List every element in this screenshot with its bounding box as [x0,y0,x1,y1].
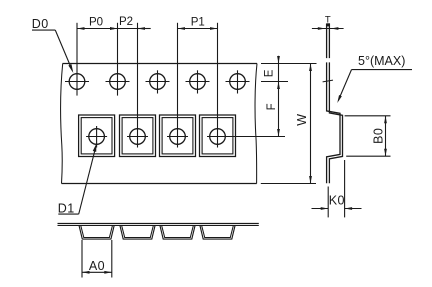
arrow T right [331,27,339,30]
sprocket hole 5 [226,70,250,93]
section tape wall outer line [327,24,340,184]
tape bottom edge [62,183,257,185]
arrow F bottom [277,129,280,137]
tape right torn edge [255,64,257,184]
svg-text:W: W [295,114,309,126]
dimension P2 line [118,28,138,30]
arrow P1 right [210,27,218,30]
tape top edge [63,63,258,65]
arrow P2 right [138,27,146,30]
extension of tape bottom edge [261,183,316,185]
extension of tape top edge [261,63,317,65]
arrow P2 left [110,27,118,30]
arrow P0 left [77,27,85,30]
svg-text:E: E [263,69,275,77]
dimension P1 line [178,28,218,30]
arrowheads [68,23,387,273]
svg-text:D0: D0 [32,17,49,31]
svg-text:5°(MAX): 5°(MAX) [358,54,405,68]
pocket 2 [120,23,156,157]
side view pocket 2 [120,226,155,239]
tape left torn edge [61,64,63,184]
leader D0 [32,30,72,70]
section break tick [323,80,333,82]
dimension W line [310,64,312,184]
arrow 5deg [337,95,342,103]
svg-text:B0: B0 [372,128,386,144]
svg-text:P1: P1 [191,17,205,29]
P2 arrow tail [138,28,151,30]
pocket 1 [79,115,115,157]
arrow K0 right [345,207,353,210]
arrow B0 top [384,116,387,124]
svg-text:F: F [266,103,278,110]
side view pocket 1 [79,226,114,239]
sprocket hole 3 [146,70,170,93]
arrow A0 left [82,271,90,274]
arrow P0 right [110,27,118,30]
sprocket hole 1 [65,23,89,96]
arrow K0 left [321,207,329,210]
svg-text:D1: D1 [58,201,75,215]
side view pocket 3 [160,226,195,239]
dimension K0 [312,160,362,217]
dimension A0 [82,240,112,278]
svg-text:A0: A0 [89,259,105,273]
sprocket hole 4 [186,70,210,93]
svg-text:P0: P0 [89,17,103,29]
arrow B0 bottom [384,149,387,157]
svg-text:T: T [325,15,331,26]
arrow E top [277,56,280,64]
pocket 4 [200,23,286,157]
dimension E F line [278,56,280,137]
arrow D1 [93,144,97,152]
pocket 3 [160,23,196,157]
svg-text:P2: P2 [119,16,133,28]
side view tape line lower [58,225,259,227]
side view tape line upper [58,223,259,225]
arrow A0 right [104,271,112,274]
side view pocket 4 [200,226,235,239]
dimension B0 [345,116,391,156]
leader D1 [58,148,95,214]
sprocket hole 2 [106,23,130,96]
arrow T left [318,27,326,30]
arrow W top [309,64,312,72]
arrow W bottom [309,176,312,184]
arrow P1 left [178,27,186,30]
arrow D0 [68,64,73,73]
arrow E bottom F top [277,82,280,90]
dimension P0 line [77,28,118,30]
svg-text:K0: K0 [329,194,345,208]
T cap tick [327,23,331,26]
dimension T line [312,28,344,30]
leader 5 deg [338,70,412,101]
extension of hole row [261,81,288,83]
section tape wall inner line [329,24,342,184]
